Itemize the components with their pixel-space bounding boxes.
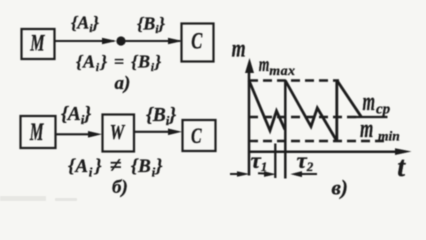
wire M to W (diagram b) — [56, 133, 95, 135]
svg-text:m: m — [360, 113, 373, 143]
wire W to C (diagram b) — [134, 131, 174, 133]
svg-text:в): в) — [332, 176, 348, 200]
svg-text:M: M — [29, 31, 45, 56]
arrowhead into box W — [88, 131, 102, 138]
svg-text:{Bi}: {Bi} — [146, 105, 176, 128]
svg-text:C: C — [191, 29, 203, 54]
svg-text:б): б) — [112, 177, 128, 198]
m axis (vertical) — [248, 70, 251, 176]
svg-text:m: m — [232, 35, 246, 63]
svg-text:{Bi}: {Bi} — [137, 14, 166, 37]
svg-text:m: m — [259, 52, 270, 76]
tau2 arrow (points left) — [298, 173, 317, 175]
svg-text:W: W — [110, 121, 126, 144]
svg-text:m: m — [363, 87, 376, 116]
arrowhead into dot — [102, 38, 117, 45]
dashed level m_min — [249, 140, 389, 142]
svg-text:t: t — [397, 152, 406, 183]
junction dot node — [116, 36, 125, 45]
replenishment jump 2 — [335, 80, 338, 141]
final descent to m_cp — [337, 80, 362, 117]
svg-text:{Ai}: {Ai} — [61, 104, 91, 127]
t axis arrowhead — [395, 148, 412, 155]
svg-text:min: min — [378, 129, 400, 144]
wire M to dot (diagram a) — [55, 40, 115, 42]
wire dot to C (diagram a) — [125, 40, 180, 42]
arrowhead into box C (diagram b) — [168, 129, 182, 136]
arrowhead into box C (diagram a) — [168, 38, 183, 45]
svg-text:C: C — [191, 125, 202, 149]
svg-text:{Ai}: {Ai} — [71, 13, 100, 36]
tick below axis at tau1 end — [274, 144, 276, 179]
scan smudge bottom left — [0, 196, 46, 201]
tau1 right arrow — [258, 172, 267, 174]
svg-text:max: max — [269, 64, 295, 79]
svg-text:а): а) — [115, 73, 131, 94]
dashed level m_cp — [249, 116, 356, 118]
replenishment jump 1 (extends below axis as tick) — [284, 81, 287, 179]
box M (diagram b) — [21, 116, 56, 148]
svg-text:ср: ср — [376, 102, 391, 118]
sawtooth stock curve segment 1 — [249, 81, 285, 131]
svg-text:{Ai} ≠ {Bi}: {Ai} ≠ {Bi} — [68, 153, 163, 180]
m axis arrowhead — [245, 58, 254, 73]
sawtooth stock curve segment 2 — [285, 81, 337, 142]
t axis (horizontal) — [249, 151, 398, 154]
box C (diagram a) — [182, 24, 214, 62]
box M (diagram a) — [22, 29, 55, 59]
box W (diagram b) — [103, 115, 135, 152]
dashed level m_max — [249, 79, 339, 81]
box C (diagram b) — [183, 120, 216, 151]
svg-text:M: M — [29, 118, 45, 146]
tau1 left arrow — [230, 173, 240, 175]
svg-text:{Ai} = {Bi}: {Ai} = {Bi} — [76, 52, 162, 75]
